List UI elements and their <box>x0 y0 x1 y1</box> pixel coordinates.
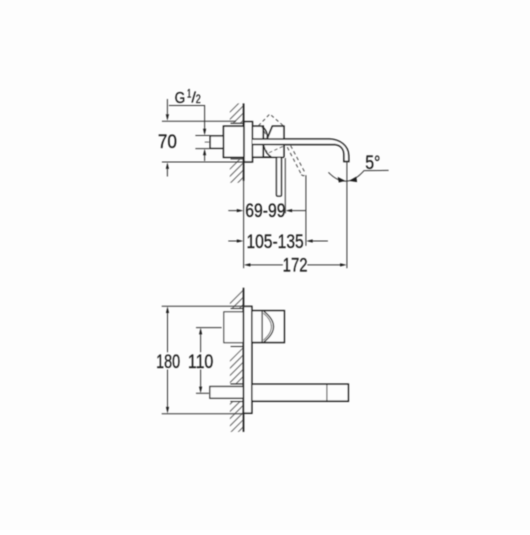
svg-text:69-99: 69-99 <box>245 200 285 222</box>
svg-text:172: 172 <box>283 255 308 277</box>
dim 180 bottom extension <box>162 413 244 415</box>
wall line (top view) <box>243 103 245 180</box>
pipe centerline dash <box>205 141 210 143</box>
dim 70 bottom arrow <box>166 169 168 177</box>
handle knob (lower view) <box>252 311 284 343</box>
dim 172 <box>250 264 341 266</box>
pipe extension lines <box>195 136 209 149</box>
G1/2 supply pipe <box>210 136 223 148</box>
text G 1/2 <box>175 89 201 107</box>
extension line from wall to bottom dims <box>243 181 245 268</box>
dashed v mark below spout <box>265 146 284 153</box>
mixer body <box>252 126 263 157</box>
knob dome outer arc <box>264 311 274 342</box>
water stream / extension line from spout tip <box>346 162 348 268</box>
cartridge dome arc <box>262 127 268 138</box>
dim 105-135 <box>228 240 237 242</box>
dim 110 line <box>200 334 202 387</box>
dim 70 top extension <box>162 120 236 122</box>
G1/2 leader line <box>169 106 205 130</box>
G1/2 arrow up <box>203 149 206 156</box>
spout (side view, curves down at right) <box>252 139 348 161</box>
svg-text:5°: 5° <box>365 152 380 174</box>
dim 69-99 <box>228 210 237 212</box>
svg-text:G: G <box>175 90 186 107</box>
dim 110 bottom extension <box>196 392 209 394</box>
wall hatch band (lower view) <box>225 287 246 459</box>
knob inner line <box>261 311 263 343</box>
lever bar (rest position) <box>277 157 282 196</box>
svg-text:180: 180 <box>156 351 180 373</box>
dashed handle raised outline <box>258 114 284 138</box>
body bottom edge <box>252 156 284 158</box>
in-wall box behind handle <box>224 312 244 343</box>
svg-text:70: 70 <box>158 131 177 153</box>
spout end tick <box>326 384 328 401</box>
wall line (lower view) <box>243 288 245 432</box>
rough-in body behind wall <box>224 126 245 157</box>
handle neck lower <box>264 145 284 158</box>
spout (lower view) <box>252 384 348 401</box>
dim 180 line <box>167 313 169 407</box>
wall plate (flange) <box>244 122 252 162</box>
extension line from dashed lever tip <box>305 175 307 246</box>
dim 70 bottom extension <box>162 161 243 163</box>
svg-text:2: 2 <box>196 94 201 106</box>
in-wall spout pipe <box>210 387 244 399</box>
svg-text:105-135: 105-135 <box>246 231 303 253</box>
dim 70 top arrow <box>166 99 168 114</box>
wall hatch (top view) <box>225 96 246 203</box>
in-wall outer housing edges (handle) <box>231 309 244 347</box>
dashed lever pulled position <box>287 146 305 176</box>
knob dome inner arc <box>263 313 271 340</box>
dim 110 top extension <box>196 327 222 329</box>
in-wall outer housing edges (spout) <box>230 384 243 402</box>
5 deg arrowheads <box>338 177 346 183</box>
in-wall outer housing edges (top view) <box>231 123 244 159</box>
dim 180 top extension <box>162 305 252 307</box>
extension line from lever <box>284 158 286 213</box>
5 deg arc <box>328 170 364 181</box>
5 deg leader <box>364 169 388 171</box>
wall plate (lower view) <box>244 306 252 413</box>
svg-text:110: 110 <box>188 351 214 373</box>
handle neck upper <box>267 126 284 139</box>
G1/2 arrow down <box>203 129 206 136</box>
